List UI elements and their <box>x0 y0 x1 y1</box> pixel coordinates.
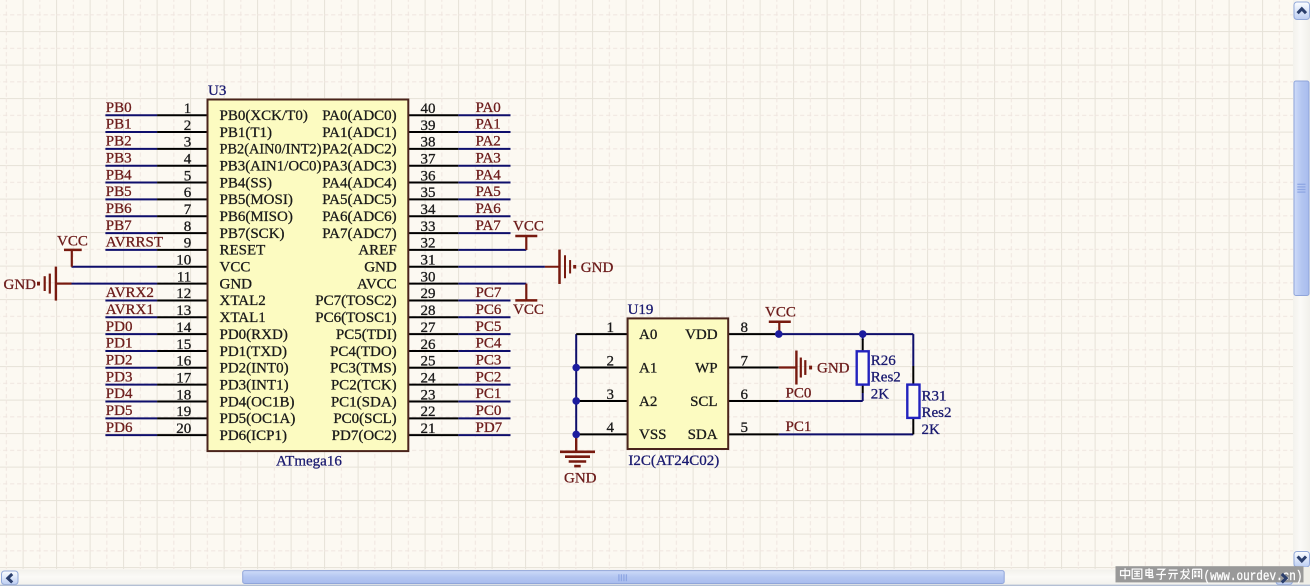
svg-text:PA4(ADC4): PA4(ADC4) <box>322 175 396 191</box>
svg-text:26: 26 <box>421 337 437 353</box>
svg-text:1: 1 <box>607 320 615 336</box>
svg-text:36: 36 <box>421 168 437 184</box>
svg-text:PA4: PA4 <box>476 167 502 183</box>
svg-text:PC2(TCK): PC2(TCK) <box>331 377 397 393</box>
svg-text:Res2: Res2 <box>922 405 952 421</box>
svg-text:A2: A2 <box>639 394 657 410</box>
svg-text:PA2: PA2 <box>476 134 501 150</box>
svg-text:PD1(TXD): PD1(TXD) <box>220 344 288 360</box>
svg-text:19: 19 <box>176 404 191 420</box>
svg-text:PB1: PB1 <box>106 117 132 133</box>
svg-text:Res2: Res2 <box>871 370 901 386</box>
svg-text:PC3(TMS): PC3(TMS) <box>330 361 397 377</box>
svg-text:37: 37 <box>421 152 437 168</box>
svg-text:9: 9 <box>184 236 192 252</box>
svg-text:PD7(OC2): PD7(OC2) <box>332 428 397 444</box>
svg-text:PA5: PA5 <box>476 184 501 200</box>
svg-text:PD1: PD1 <box>106 336 133 352</box>
svg-text:7: 7 <box>741 353 749 369</box>
svg-text:(www.ourdev.cn): (www.ourdev.cn) <box>1204 569 1303 585</box>
svg-text:GND: GND <box>364 260 397 276</box>
svg-text:GND: GND <box>817 361 850 377</box>
svg-text:PB7(SCK): PB7(SCK) <box>220 226 285 242</box>
svg-text:PD3: PD3 <box>106 369 133 385</box>
svg-text:PD7: PD7 <box>476 420 503 436</box>
svg-text:AREF: AREF <box>358 243 396 259</box>
svg-text:PD0(RXD): PD0(RXD) <box>220 327 288 343</box>
svg-text:AVRX1: AVRX1 <box>106 302 154 318</box>
svg-text:14: 14 <box>176 320 192 336</box>
svg-text:PB5: PB5 <box>106 184 132 200</box>
svg-text:PA2(ADC2): PA2(ADC2) <box>322 142 396 158</box>
svg-text:VCC: VCC <box>57 233 88 249</box>
svg-text:6: 6 <box>741 387 749 403</box>
svg-text:XTAL2: XTAL2 <box>220 293 266 309</box>
svg-text:10: 10 <box>176 253 191 269</box>
svg-text:PB2: PB2 <box>106 134 132 150</box>
svg-text:WP: WP <box>695 360 718 376</box>
svg-text:PD3(INT1): PD3(INT1) <box>220 377 289 393</box>
svg-text:PB0: PB0 <box>106 100 132 116</box>
svg-text:2K: 2K <box>922 422 941 438</box>
svg-text:1: 1 <box>184 101 192 117</box>
svg-text:PB6(MISO): PB6(MISO) <box>220 209 293 225</box>
svg-text:PD0: PD0 <box>106 319 133 335</box>
svg-text:6: 6 <box>184 185 192 201</box>
svg-text:13: 13 <box>176 303 191 319</box>
svg-text:PA3(ADC3): PA3(ADC3) <box>322 159 396 175</box>
svg-text:2K: 2K <box>871 387 890 403</box>
svg-text:PD6(ICP1): PD6(ICP1) <box>220 428 288 444</box>
svg-text:VCC: VCC <box>765 304 796 320</box>
svg-text:4: 4 <box>607 420 615 436</box>
svg-text:PD5: PD5 <box>106 403 133 419</box>
svg-text:PB6: PB6 <box>106 201 132 217</box>
svg-text:PB1(T1): PB1(T1) <box>220 125 273 141</box>
svg-text:PD6: PD6 <box>106 420 133 436</box>
svg-text:PA6(ADC6): PA6(ADC6) <box>322 209 396 225</box>
svg-text:5: 5 <box>741 420 749 436</box>
svg-text:12: 12 <box>176 286 191 302</box>
svg-text:PB2(AIN0/INT2): PB2(AIN0/INT2) <box>220 142 322 158</box>
svg-text:GND: GND <box>564 470 597 486</box>
svg-text:28: 28 <box>421 303 436 319</box>
svg-text:R26: R26 <box>871 353 897 369</box>
svg-text:15: 15 <box>176 337 191 353</box>
svg-text:AVCC: AVCC <box>357 276 397 292</box>
svg-text:8: 8 <box>741 320 749 336</box>
svg-text:PC0(SCL): PC0(SCL) <box>333 411 396 427</box>
svg-text:VCC: VCC <box>513 302 544 318</box>
svg-text:33: 33 <box>421 219 436 235</box>
svg-text:PA7(ADC7): PA7(ADC7) <box>322 226 396 242</box>
svg-text:PB3: PB3 <box>106 150 132 166</box>
svg-text:RESET: RESET <box>220 243 266 259</box>
svg-text:PD5(OC1A): PD5(OC1A) <box>220 411 296 427</box>
svg-text:PD2(INT0): PD2(INT0) <box>220 361 289 377</box>
svg-text:27: 27 <box>421 320 437 336</box>
svg-text:5: 5 <box>184 168 192 184</box>
svg-text:PD4(OC1B): PD4(OC1B) <box>220 394 295 410</box>
svg-text:PB4: PB4 <box>106 167 132 183</box>
svg-text:PC4(TDO): PC4(TDO) <box>330 344 397 360</box>
svg-text:2: 2 <box>607 353 615 369</box>
svg-text:SDA: SDA <box>688 427 718 443</box>
svg-text:PB3(AIN1/OC0): PB3(AIN1/OC0) <box>220 159 322 175</box>
svg-text:SCL: SCL <box>690 394 718 410</box>
svg-text:29: 29 <box>421 286 436 302</box>
svg-text:R31: R31 <box>922 388 947 404</box>
svg-text:23: 23 <box>421 387 436 403</box>
svg-text:AVRX2: AVRX2 <box>106 285 154 301</box>
svg-text:PC6: PC6 <box>476 302 502 318</box>
svg-text:PD2: PD2 <box>106 353 133 369</box>
svg-text:PA1: PA1 <box>476 117 501 133</box>
svg-text:GND: GND <box>220 276 253 292</box>
svg-text:U19: U19 <box>628 302 654 318</box>
svg-text:7: 7 <box>184 202 192 218</box>
svg-text:PC4: PC4 <box>476 336 502 352</box>
svg-text:32: 32 <box>421 236 436 252</box>
svg-text:PC1: PC1 <box>786 419 812 435</box>
svg-text:U3: U3 <box>208 83 226 99</box>
svg-text:I2C(AT24C02): I2C(AT24C02) <box>628 453 719 469</box>
svg-text:PB7: PB7 <box>106 218 132 234</box>
svg-text:2: 2 <box>184 118 192 134</box>
svg-text:3: 3 <box>607 387 615 403</box>
svg-text:39: 39 <box>421 118 436 134</box>
svg-text:30: 30 <box>421 269 436 285</box>
svg-text:11: 11 <box>177 269 191 285</box>
svg-text:VDD: VDD <box>685 327 718 343</box>
svg-text:PA1(ADC1): PA1(ADC1) <box>322 125 396 141</box>
svg-text:A0: A0 <box>639 327 657 343</box>
svg-text:XTAL1: XTAL1 <box>220 310 266 326</box>
svg-text:PC6(TOSC1): PC6(TOSC1) <box>315 310 396 326</box>
svg-text:PA6: PA6 <box>476 201 502 217</box>
svg-text:GND: GND <box>581 260 614 276</box>
svg-text:GND: GND <box>4 277 37 293</box>
svg-text:20: 20 <box>176 421 191 437</box>
svg-text:A1: A1 <box>639 360 657 376</box>
svg-text:34: 34 <box>421 202 437 218</box>
svg-text:22: 22 <box>421 404 436 420</box>
svg-text:PC7(TOSC2): PC7(TOSC2) <box>315 293 396 309</box>
svg-text:21: 21 <box>421 421 436 437</box>
svg-text:24: 24 <box>421 370 437 386</box>
svg-text:PB5(MOSI): PB5(MOSI) <box>220 192 293 208</box>
svg-text:18: 18 <box>176 387 191 403</box>
svg-text:PA0: PA0 <box>476 100 501 116</box>
svg-text:PB4(SS): PB4(SS) <box>220 175 273 191</box>
svg-text:PC7: PC7 <box>476 285 502 301</box>
svg-text:VCC: VCC <box>513 219 544 235</box>
svg-text:40: 40 <box>421 101 436 117</box>
svg-text:35: 35 <box>421 185 436 201</box>
svg-text:8: 8 <box>184 219 192 235</box>
svg-text:3: 3 <box>184 135 192 151</box>
svg-text:VCC: VCC <box>220 260 251 276</box>
svg-text:PC2: PC2 <box>476 369 502 385</box>
svg-text:PC0: PC0 <box>476 403 502 419</box>
svg-text:PB0(XCK/T0): PB0(XCK/T0) <box>220 108 308 124</box>
svg-text:VSS: VSS <box>639 427 667 443</box>
svg-text:PD4: PD4 <box>106 386 133 402</box>
svg-text:4: 4 <box>184 152 192 168</box>
svg-text:PA3: PA3 <box>476 150 501 166</box>
svg-text:PC0: PC0 <box>786 386 812 402</box>
svg-text:PA7: PA7 <box>476 218 502 234</box>
svg-text:PC3: PC3 <box>476 353 502 369</box>
svg-text:16: 16 <box>176 354 192 370</box>
svg-text:ATmega16: ATmega16 <box>276 454 342 470</box>
svg-text:PC5(TDI): PC5(TDI) <box>336 327 397 343</box>
svg-text:25: 25 <box>421 354 436 370</box>
svg-text:PC1(SDA): PC1(SDA) <box>331 394 397 410</box>
svg-text:AVRRST: AVRRST <box>106 235 163 251</box>
svg-text:38: 38 <box>421 135 436 151</box>
svg-text:PA0(ADC0): PA0(ADC0) <box>322 108 396 124</box>
svg-text:PC5: PC5 <box>476 319 502 335</box>
svg-text:17: 17 <box>176 370 192 386</box>
svg-text:31: 31 <box>421 253 436 269</box>
svg-text:PC1: PC1 <box>476 386 502 402</box>
svg-text:PA5(ADC5): PA5(ADC5) <box>322 192 396 208</box>
